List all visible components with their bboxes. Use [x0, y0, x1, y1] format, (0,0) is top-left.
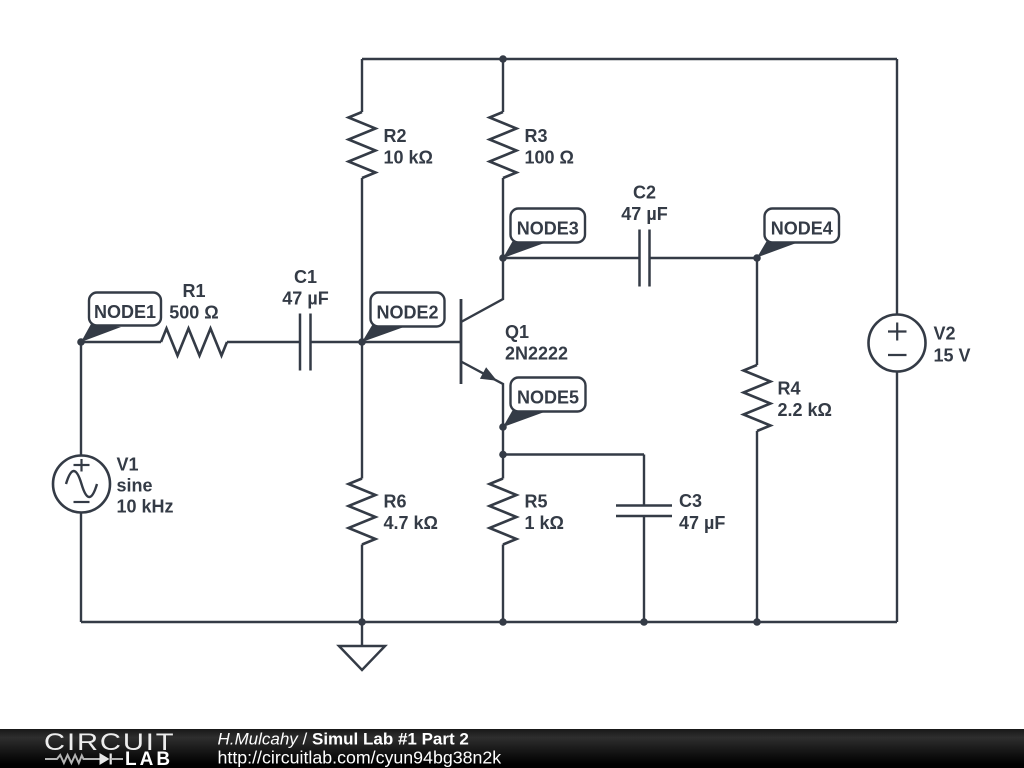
svg-text:10 kHz: 10 kHz [117, 497, 174, 517]
logo resistor squiggle [45, 755, 100, 763]
svg-text:C1: C1 [294, 267, 317, 287]
junction emitter row [499, 451, 507, 459]
transistor Q1 emitter arrow [480, 367, 497, 380]
ground stem [361, 622, 363, 646]
svg-text:NODE3: NODE3 [517, 219, 579, 239]
svg-text:http://circuitlab.com/cyun94bg: http://circuitlab.com/cyun94bg38n2k [218, 748, 502, 768]
svg-text:sine: sine [117, 476, 153, 496]
label V2 value [934, 324, 971, 366]
wire NODE3 to C2 [503, 257, 640, 259]
svg-text:NODE1: NODE1 [94, 302, 156, 322]
svg-text:R6: R6 [384, 492, 407, 512]
wire R3 top lead [502, 59, 504, 112]
svg-text:100 Ω: 100 Ω [525, 148, 574, 168]
svg-text:2.2 kΩ: 2.2 kΩ [778, 400, 832, 420]
wire NODE1 to R1 [81, 341, 161, 343]
svg-text:V2: V2 [934, 324, 956, 344]
junction bottom rail R4 [753, 618, 761, 626]
resistor R5 [490, 479, 517, 545]
svg-text:C3: C3 [679, 491, 702, 511]
node NODE2 dot [358, 338, 366, 346]
label NODE1 [81, 293, 161, 343]
node NODE5 dot [499, 423, 507, 431]
svg-text:NODE2: NODE2 [376, 303, 438, 323]
footer bar [0, 729, 1024, 768]
wire C3 bottom lead [643, 516, 645, 622]
svg-text:NODE5: NODE5 [517, 388, 579, 408]
label Q1 value [505, 322, 568, 364]
label C2 value [621, 183, 667, 225]
node NODE1 dot [77, 338, 85, 346]
label NODE2 [362, 293, 445, 343]
wire V2 bottom lead [896, 372, 898, 623]
svg-text:47 µF: 47 µF [282, 289, 328, 309]
junction bottom rail R5 [499, 618, 507, 626]
wire R6 bottom lead [361, 545, 363, 623]
resistor R6 [349, 479, 376, 545]
wire bottom rail [81, 621, 897, 623]
svg-text:10 kΩ: 10 kΩ [384, 148, 433, 168]
junction bottom rail R6 [358, 618, 366, 626]
wire R2 top lead [361, 59, 363, 112]
svg-text:R4: R4 [778, 379, 801, 399]
label R5 value [525, 492, 564, 534]
svg-text:V1: V1 [117, 455, 139, 475]
label C3 value [679, 491, 725, 533]
svg-text:Q1: Q1 [505, 322, 529, 342]
wire V2 top lead [896, 59, 898, 315]
svg-text:LAB: LAB [125, 749, 173, 768]
source V1 sine wave [66, 471, 97, 497]
source V2 circle [869, 315, 926, 372]
wire C2 to NODE4 [650, 257, 758, 259]
wire R1 to C1 [227, 341, 300, 343]
label V1 value [117, 455, 174, 517]
capacitor C1 [300, 314, 311, 371]
junction top rail [499, 55, 507, 63]
wire R3 bottom lead [502, 178, 504, 258]
label NODE3 [503, 209, 585, 259]
svg-text:2N2222: 2N2222 [505, 344, 568, 364]
svg-text:R1: R1 [182, 281, 205, 301]
label C1 value [282, 267, 328, 309]
wire base of Q1 [362, 341, 461, 343]
svg-text:1 kΩ: 1 kΩ [525, 513, 564, 533]
source V1 plus sign [74, 459, 90, 472]
wire R4 top lead [756, 258, 758, 365]
capacitor C2 [640, 230, 650, 287]
label R2 value [384, 126, 433, 168]
node NODE3 dot [499, 254, 507, 262]
label R6 value [384, 492, 438, 534]
wire R5 top lead [502, 455, 504, 479]
node NODE4 dot [753, 254, 761, 262]
svg-text:NODE4: NODE4 [771, 219, 833, 239]
label R3 value [525, 126, 574, 168]
svg-text:C2: C2 [633, 183, 656, 203]
transistor Q1 emitter [461, 362, 503, 455]
svg-text:R5: R5 [525, 492, 548, 512]
svg-text:R3: R3 [525, 126, 548, 146]
capacitor C3 [616, 506, 672, 517]
resistor R1 [161, 329, 227, 356]
transistor Q1 collector [461, 258, 503, 322]
svg-text:500 Ω: 500 Ω [169, 303, 218, 323]
junction bottom rail C3 [640, 618, 648, 626]
wire V1 top lead [80, 342, 82, 456]
resistor R2 [349, 112, 376, 178]
wire C3 top lead [643, 455, 645, 506]
wire V1 bottom lead [80, 513, 82, 623]
svg-text:H.Mulcahy / Simul Lab #1 Part: H.Mulcahy / Simul Lab #1 Part 2 [218, 729, 469, 748]
source V2 minus sign [888, 354, 907, 356]
svg-text:47 µF: 47 µF [679, 513, 725, 533]
label NODE5 [503, 378, 586, 428]
svg-text:47 µF: 47 µF [621, 204, 667, 224]
wire top rail [362, 58, 897, 60]
ground symbol [339, 646, 385, 670]
wire C1 to NODE2 [311, 341, 363, 343]
source V1 minus sign [74, 501, 90, 503]
transistor Q1 base bar [460, 299, 463, 384]
label R4 value [778, 379, 832, 421]
wire emitter row to C3 [503, 453, 644, 455]
label R1 value [169, 281, 218, 323]
label NODE4 [757, 209, 839, 258]
wire R6 top lead [361, 342, 363, 479]
wire R4 bottom lead [756, 431, 758, 622]
wire R2 bottom lead [361, 178, 363, 342]
source V2 plus sign [888, 323, 907, 341]
source V1 circle [53, 456, 110, 513]
wire R5 bottom lead [502, 545, 504, 623]
svg-text:R2: R2 [384, 126, 407, 146]
svg-text:15 V: 15 V [934, 346, 971, 366]
resistor R4 [744, 365, 771, 431]
svg-text:4.7 kΩ: 4.7 kΩ [384, 513, 438, 533]
logo diode [100, 753, 110, 765]
resistor R3 [490, 112, 517, 178]
